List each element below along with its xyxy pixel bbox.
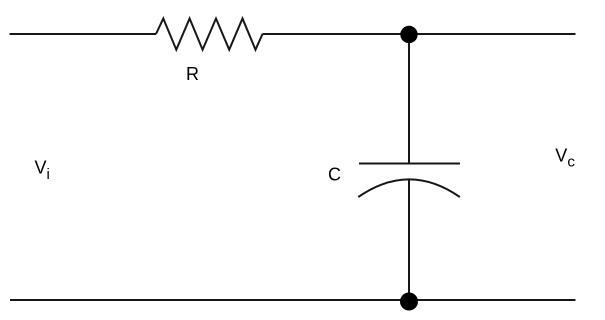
node B (bottom junction) xyxy=(400,293,418,311)
capacitor C top plate xyxy=(359,163,460,165)
wire bottom xyxy=(10,299,576,301)
capacitor C curved plate xyxy=(358,179,460,197)
svg-text:C: C xyxy=(328,165,341,185)
wire vertical upper (node A to capacitor) xyxy=(408,34,410,164)
svg-text:R: R xyxy=(186,64,199,84)
resistor R xyxy=(156,19,263,50)
wire top-left (Vi to resistor) xyxy=(10,33,157,35)
svg-text:Vi: Vi xyxy=(35,158,50,183)
node A (top junction) xyxy=(400,26,417,43)
svg-text:Vc: Vc xyxy=(555,145,575,170)
wire top-right (resistor to node A) xyxy=(263,33,576,35)
wire vertical lower (capacitor to node B) xyxy=(408,180,410,300)
